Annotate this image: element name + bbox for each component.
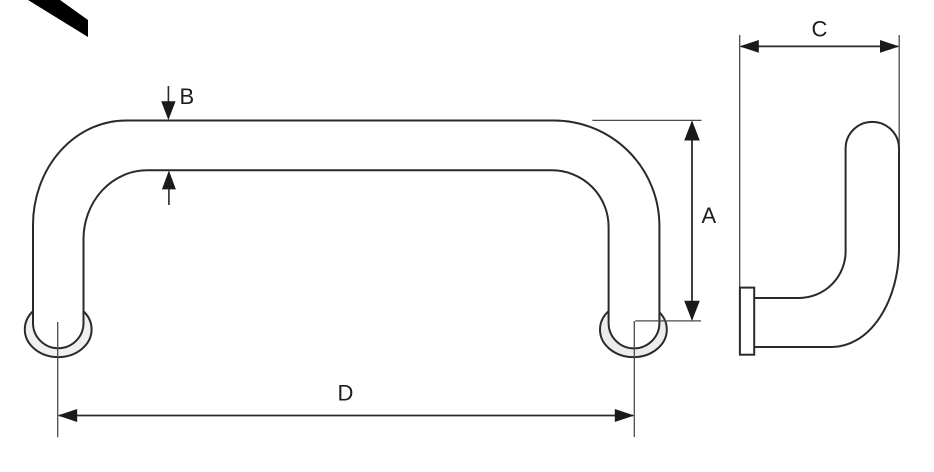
dimension C right extension line: [898, 35, 900, 145]
dimension B bottom arrowhead: [162, 171, 176, 190]
side view tube outline: [754, 122, 899, 347]
svg-text:A: A: [702, 203, 717, 228]
dimension B top leader line: [167, 86, 169, 104]
svg-text:B: B: [180, 84, 195, 109]
dimension C line: [741, 45, 898, 47]
dimension D right extension line: [633, 321, 635, 437]
dimension D right arrowhead: [615, 409, 635, 422]
dimension C left arrowhead: [740, 40, 759, 53]
svg-text:C: C: [812, 16, 828, 41]
right boss ellipse: [600, 302, 667, 357]
dimension D line: [59, 415, 633, 417]
dimension B top arrowhead: [161, 101, 175, 120]
dimension C right arrowhead: [880, 40, 899, 53]
side view flange plate: [740, 288, 754, 355]
dimension A line: [691, 122, 693, 320]
left boss ellipse: [25, 302, 92, 357]
dimension D left arrowhead: [58, 409, 77, 422]
dimension B bottom leader line: [168, 188, 170, 205]
dimension D left extension line: [57, 322, 59, 437]
dimension A top extension line: [592, 119, 701, 121]
dimension A top arrowhead: [684, 120, 700, 140]
svg-text:D: D: [338, 381, 354, 406]
corner artifact triangle: [28, 0, 88, 37]
handle tube outline: [33, 121, 659, 349]
dimension A bottom arrowhead: [684, 301, 700, 321]
dimension C left extension line: [739, 35, 741, 288]
dimension A bottom extension line: [635, 320, 701, 322]
